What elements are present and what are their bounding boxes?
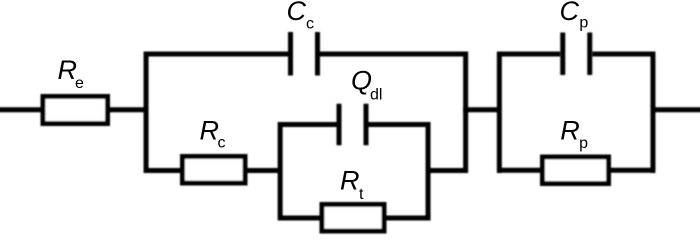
- svg-text:dl: dl: [370, 86, 382, 103]
- svg-text:p: p: [579, 14, 588, 31]
- svg-text:C: C: [287, 0, 307, 26]
- svg-text:R: R: [560, 116, 580, 146]
- svg-text:Q: Q: [351, 66, 372, 96]
- svg-text:c: c: [306, 16, 314, 33]
- svg-text:R: R: [340, 166, 360, 196]
- svg-text:R: R: [200, 116, 220, 146]
- svg-text:e: e: [75, 75, 84, 92]
- svg-text:c: c: [218, 135, 226, 152]
- svg-text:C: C: [560, 0, 580, 26]
- svg-text:p: p: [579, 135, 588, 152]
- svg-text:t: t: [359, 186, 364, 203]
